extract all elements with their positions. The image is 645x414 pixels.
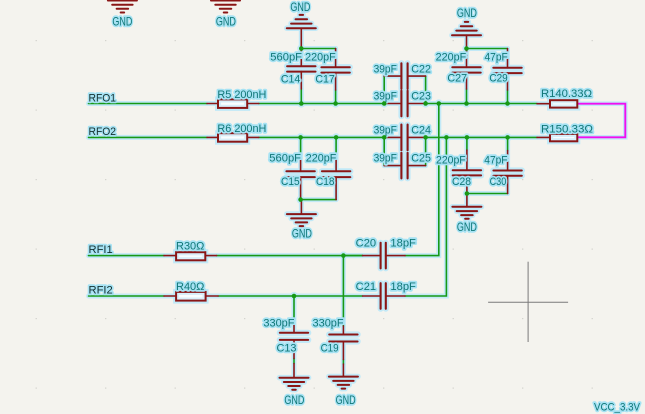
svg-text:220pF: 220pF: [436, 52, 467, 64]
capacitor C25 39pF: [374, 153, 431, 179]
wire C28 top: [466, 137, 468, 150]
wire vertical RFI2 to C13: [293, 296, 295, 324]
svg-text:R5 200nH: R5 200nH: [217, 89, 266, 101]
svg-text:C27: C27: [447, 73, 467, 85]
svg-text:RFI1: RFI1: [89, 244, 113, 256]
svg-text:RFO1: RFO1: [89, 92, 117, 104]
wire C20 left: [343, 255, 362, 257]
svg-text:GND: GND: [336, 393, 356, 407]
capacitor C13 330pF: [263, 318, 308, 359]
capacitor C29 47pF: [485, 49, 522, 91]
wire C22 parallel loop right: [425, 76, 427, 103]
svg-text:GND: GND: [290, 0, 310, 14]
svg-text:C21: C21: [356, 281, 377, 293]
capacitor C14 560pF: [270, 49, 315, 89]
junction RFO1 C27: [464, 101, 469, 106]
net label RFO1: [89, 92, 117, 104]
svg-text:R30Ω: R30Ω: [176, 241, 204, 253]
svg-text:220pF: 220pF: [306, 153, 337, 165]
wire C29 bottom: [507, 90, 509, 104]
svg-text:GND: GND: [457, 220, 477, 234]
ground GND below C15: [287, 200, 316, 241]
junction RFO2 C21 branch: [444, 135, 449, 140]
junction GND C14 top: [299, 46, 304, 51]
wire C27 bottom: [466, 89, 468, 104]
junction RFO2 C15: [298, 135, 303, 140]
wire RFO2 middle segment: [259, 136, 384, 138]
capacitor C24 39pF: [374, 125, 431, 151]
svg-text:R6 200nH: R6 200nH: [217, 123, 266, 135]
capacitor C19 330pF: [313, 318, 358, 360]
junction RFO2 C28: [465, 135, 470, 140]
svg-text:RFI2: RFI2: [89, 284, 113, 296]
ground GND below C19: [329, 364, 358, 407]
svg-text:C15: C15: [281, 176, 300, 188]
ground GND top-left 2: [211, 1, 240, 29]
svg-text:C24: C24: [411, 125, 431, 137]
junction C28 bottom: [465, 191, 470, 196]
capacitor C21 18pF: [356, 281, 417, 309]
svg-text:C13: C13: [277, 343, 297, 355]
capacitor C15 560pF: [269, 153, 315, 200]
svg-text:47pF: 47pF: [485, 52, 509, 64]
svg-text:39pF: 39pF: [374, 91, 398, 103]
junction RFO1 C17: [333, 101, 338, 106]
wire C28/C30 bottom link: [467, 193, 508, 195]
svg-text:18pF: 18pF: [390, 281, 416, 293]
net label VCC_3.3V: [594, 401, 641, 413]
wire RFI2 middle segment: [218, 295, 363, 297]
wire RFO2 left segment: [89, 136, 208, 138]
wire vertical RFO2 to C21: [405, 137, 446, 296]
wire C15 top: [300, 137, 302, 154]
capacitor C22 39pF: [374, 63, 431, 89]
svg-text:VCC_3.3V: VCC_3.3V: [594, 401, 641, 413]
svg-text:R40Ω: R40Ω: [176, 281, 204, 293]
wire GND to C14/C17 top: [301, 48, 335, 50]
junction RFI2 C13 branch: [292, 294, 297, 299]
svg-text:C18: C18: [316, 176, 335, 188]
wire C17 bottom: [335, 90, 337, 104]
svg-text:GND: GND: [112, 14, 132, 28]
svg-text:39pF: 39pF: [374, 125, 398, 137]
wire C15/C18 bottom link: [301, 199, 337, 201]
resistor R14 0.33R: [537, 88, 592, 107]
net label RFI2: [89, 284, 113, 296]
svg-text:R140.33Ω: R140.33Ω: [541, 88, 592, 100]
junction RFI1 C19 branch: [341, 253, 346, 258]
junction RFO1 C14: [299, 101, 304, 106]
svg-text:GND: GND: [284, 393, 304, 407]
svg-text:330pF: 330pF: [313, 318, 345, 330]
wire RFI2 left segment: [89, 295, 165, 297]
capacitor C18 220pF: [306, 153, 351, 200]
wire GND to C27/C29 top: [467, 48, 508, 50]
capacitor C27 220pF: [436, 49, 481, 90]
junction RFO1 C20 branch: [437, 101, 442, 106]
ground GND below C13: [280, 364, 309, 407]
wire C13 stub: [293, 359, 295, 364]
svg-text:39pF: 39pF: [374, 64, 398, 76]
wire C25 parallel loop right: [425, 137, 427, 165]
wire RFO1 right segment: [426, 103, 537, 105]
junction C15 bottom: [298, 197, 303, 202]
svg-text:C14: C14: [281, 74, 301, 86]
svg-text:C17: C17: [315, 74, 335, 86]
ground GND above C27: [452, 6, 481, 48]
junction RFO1 C23 left: [382, 101, 387, 106]
svg-text:560pF: 560pF: [270, 52, 302, 64]
inductor R5 200nH: [207, 89, 266, 108]
svg-text:RFO2: RFO2: [89, 126, 117, 138]
svg-text:47pF: 47pF: [484, 155, 508, 167]
svg-text:GND: GND: [216, 14, 236, 28]
wire vertical RFI1 to C19: [342, 256, 344, 326]
svg-text:C22: C22: [411, 64, 431, 76]
svg-text:C25: C25: [411, 153, 431, 165]
capacitor C28 220pF: [436, 150, 481, 194]
svg-text:560pF: 560pF: [269, 153, 301, 165]
wire RFO2 right segment: [426, 136, 537, 138]
wire RFO1 left segment: [89, 103, 208, 105]
ground GND top-left 1: [108, 1, 137, 29]
svg-text:220pF: 220pF: [436, 155, 466, 167]
svg-text:330pF: 330pF: [263, 318, 295, 330]
resistor R3 0R: [164, 241, 217, 261]
wire magenta loop R14 to R15: [578, 104, 626, 138]
junction GND C27 top: [464, 46, 469, 51]
inductor R6 200nH: [207, 123, 266, 142]
svg-text:220pF: 220pF: [305, 52, 336, 64]
svg-text:39pF: 39pF: [374, 153, 398, 165]
wire C18 top: [335, 137, 337, 155]
ground GND below C28: [452, 194, 481, 235]
capacitor C23 39pF: [374, 91, 431, 117]
resistor R4 0R: [164, 281, 218, 301]
svg-text:C19: C19: [321, 343, 339, 355]
wire RFI1 middle segment: [217, 255, 363, 257]
junction RFO2 C30: [505, 135, 510, 140]
wire C19 stub: [342, 360, 344, 365]
junction RFO1 C23 right: [423, 101, 428, 106]
wire C30 top: [507, 137, 509, 150]
svg-text:C23: C23: [411, 91, 431, 103]
net label RFI1: [89, 244, 113, 256]
ground GND above C14: [287, 0, 316, 49]
svg-text:GND: GND: [292, 227, 312, 241]
wire C22 parallel loop left: [383, 76, 385, 103]
wire C14 bottom: [300, 89, 302, 104]
junction RFO1 C29: [505, 101, 510, 106]
wire C25 parallel loop left: [383, 137, 385, 165]
svg-text:C20: C20: [356, 237, 377, 249]
svg-text:18pF: 18pF: [390, 237, 416, 249]
svg-text:C28: C28: [452, 176, 471, 188]
capacitor C20 18pF: [356, 237, 417, 268]
junction RFO2 C18: [334, 135, 339, 140]
svg-text:R150.33Ω: R150.33Ω: [541, 123, 593, 135]
junction RFO2 C24 left: [382, 135, 387, 140]
wire RFI1 left segment: [89, 255, 165, 257]
wire vertical RFO1 to C20: [405, 104, 439, 256]
net label RFO2: [89, 126, 117, 138]
svg-text:C29: C29: [489, 73, 507, 85]
junction RFO2 C24 right: [423, 135, 428, 140]
graphic cross lines: [488, 262, 568, 342]
capacitor C17 220pF: [305, 49, 350, 91]
capacitor C30 47pF: [484, 151, 522, 194]
resistor R15 0.33R: [537, 123, 593, 141]
wire RFO1 middle segment: [259, 103, 384, 105]
svg-text:C30: C30: [490, 176, 507, 188]
svg-text:GND: GND: [457, 6, 477, 20]
